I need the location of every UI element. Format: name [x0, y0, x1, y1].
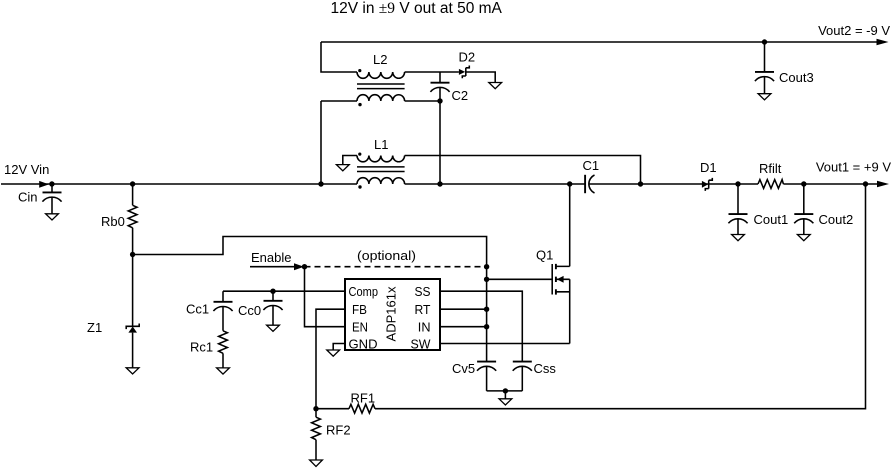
wire: GND pin [333, 344, 345, 351]
svg-text:Cc0: Cc0 [238, 303, 261, 318]
svg-text:FB: FB [352, 302, 367, 317]
svg-text:GND: GND [349, 336, 378, 351]
node: input junction [49, 181, 54, 186]
resistor RF1 [316, 391, 375, 414]
transformer L1 winding (top) [357, 153, 405, 162]
diode Z1 (zener) [87, 255, 139, 368]
svg-text:RT: RT [415, 302, 431, 317]
svg-text:Css: Css [534, 361, 557, 376]
wire: L2 top to D2 [405, 71, 459, 73]
svg-text:Cout2: Cout2 [819, 212, 854, 227]
ground (below Rc1) [217, 368, 230, 374]
wire: L2 bottom right lead [405, 101, 440, 184]
arrow Vout2 [818, 23, 890, 45]
wire: Enable input [250, 250, 294, 267]
svg-text:Vout2 = -9 V: Vout2 = -9 V [818, 23, 890, 38]
wire: IN pin [440, 326, 487, 328]
svg-text:C1: C1 [583, 158, 600, 173]
ground (L1 top winding) [336, 165, 349, 171]
ground (IC GND) [327, 350, 340, 356]
svg-text:ADP161x: ADP161x [384, 286, 399, 341]
svg-text:RF2: RF2 [326, 423, 351, 438]
node: feedback divider [313, 406, 318, 411]
ground (below Z1) [126, 368, 139, 374]
svg-text:Cc1: Cc1 [186, 302, 209, 317]
ground (below Cout1) [732, 235, 745, 241]
capacitor Cout3 [755, 42, 814, 94]
node: IN rail / IN [484, 324, 489, 329]
svg-text:Cout3: Cout3 [779, 70, 814, 85]
svg-text:Comp: Comp [349, 284, 379, 299]
capacitor C2 [430, 72, 468, 103]
resistor Rc1 [190, 331, 227, 368]
input arrow 12V Vin [4, 162, 49, 188]
wire: gate drive [487, 278, 553, 280]
wire: SS pin to Css [440, 291, 522, 361]
wire: EN pin [305, 267, 346, 327]
svg-text:L2: L2 [373, 52, 387, 67]
core L1 [357, 167, 405, 172]
wire: L1 top winding left lead [343, 156, 357, 165]
svg-text:D1: D1 [700, 160, 717, 175]
arrow Vout1 [816, 160, 892, 188]
svg-text:Q1: Q1 [536, 248, 553, 263]
wire: D2 cathode to ground [466, 72, 495, 83]
svg-text:Cv5: Cv5 [452, 361, 475, 376]
node: rail right of L1 [437, 181, 442, 186]
node: Cc0 tap [270, 289, 275, 294]
transformer L2 winding (top) [357, 69, 405, 78]
svg-text:L1: L1 [374, 137, 388, 152]
svg-text:(optional): (optional) [357, 248, 416, 263]
capacitor Cin [18, 184, 62, 214]
wire: -9V top rail [321, 41, 879, 43]
node: C1 output junction [638, 181, 643, 186]
svg-text:SS: SS [415, 284, 431, 299]
svg-text:Enable: Enable [251, 250, 291, 265]
svg-text:Cout1: Cout1 [754, 212, 789, 227]
wire: L1 top to C1 output [405, 156, 641, 185]
node: Cout1 tap [735, 181, 740, 186]
svg-text:Z1: Z1 [87, 320, 102, 335]
svg-text:EN: EN [352, 320, 368, 335]
node: Cout3 tap [762, 39, 767, 44]
svg-text:RF1: RF1 [351, 391, 376, 406]
IC U1 ADP161x body [345, 279, 440, 350]
svg-text:C2: C2 [452, 88, 469, 103]
ground (below RF2) [310, 460, 323, 467]
capacitor Cc0 [238, 291, 283, 325]
capacitor C1 [583, 158, 600, 193]
capacitor Css [513, 361, 557, 391]
wire: Comp pin to compensation network [223, 290, 345, 292]
wire: FB pin [316, 309, 345, 409]
arrow Enable [294, 263, 304, 270]
svg-text:Rb0: Rb0 [101, 214, 125, 229]
wire: SW pin to Q1 source [440, 343, 570, 345]
wire: 12V input rail [1, 183, 877, 185]
diode D1 (Schottky) [700, 160, 717, 191]
ground (below Cout2) [797, 235, 810, 241]
resistor Rfilt [758, 161, 783, 188]
svg-text:Cin: Cin [18, 190, 38, 205]
node: output sense tap [863, 181, 868, 186]
node: IN rail / enable [484, 264, 489, 269]
transformer L1 winding (bottom) [357, 178, 405, 189]
node: IN rail / gate [484, 277, 489, 282]
ground (below Cout3) [758, 94, 771, 100]
svg-text:12V in ±9 V out at 50 mA: 12V in ±9 V out at 50 mA [331, 0, 503, 17]
wire: feedback sense from Vout1 [375, 184, 866, 409]
ground (D2 return) [489, 83, 502, 89]
node: enable junction [302, 264, 307, 269]
node: Rb0 bottom [130, 252, 135, 257]
ground (decoupling) [499, 399, 512, 405]
svg-text:D2: D2 [459, 50, 476, 65]
svg-text:Rc1: Rc1 [190, 340, 213, 355]
wire: Cv5/Css return [487, 391, 523, 399]
svg-text:IN: IN [418, 320, 431, 335]
node: Rb0 top [130, 181, 135, 186]
capacitor Cc1 [186, 291, 233, 331]
svg-text:Vout1 = +9 V: Vout1 = +9 V [816, 160, 892, 175]
wire: Rb0 node to IC supply feed [133, 237, 487, 362]
wire: RT pin [440, 308, 487, 310]
capacitor Cv5 [452, 361, 496, 391]
node: decoupling return [503, 388, 508, 393]
node: Q1 drain tap [567, 181, 572, 186]
wire: dashed optional enable tie [305, 248, 487, 267]
resistor Rb0 [101, 184, 137, 255]
transformer L2 winding (bottom) [357, 95, 405, 107]
ground (below Cin) [46, 214, 59, 220]
ground (below Cc0) [267, 325, 280, 331]
transistor Q1 (NMOS) [536, 184, 570, 344]
node: IN rail / RT [484, 307, 489, 312]
node: rail/L2 junction [318, 181, 323, 186]
node: C2/L2 junction [437, 98, 442, 103]
diode D2 (Schottky) [459, 50, 476, 79]
capacitor Cout2 [794, 184, 853, 235]
core L2 [357, 84, 405, 89]
capacitor Cout1 [728, 184, 788, 235]
resistor RF2 [312, 409, 351, 460]
svg-text:SW: SW [411, 336, 432, 351]
svg-text:Rfilt: Rfilt [759, 161, 782, 176]
node: Cout2 tap [801, 181, 806, 186]
svg-text:12V Vin: 12V Vin [4, 162, 49, 177]
wire: L2 left leads [321, 42, 357, 184]
